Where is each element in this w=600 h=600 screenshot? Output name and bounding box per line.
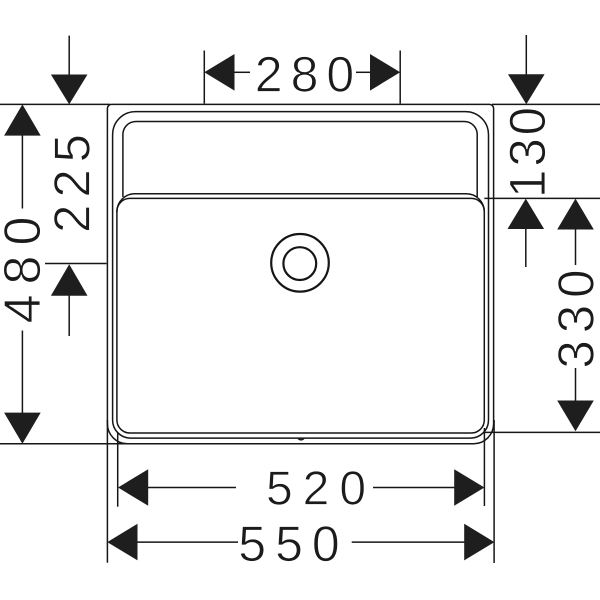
dim 550: left extension line — [106, 420, 108, 563]
svg-text:225: 225 — [43, 127, 100, 233]
dim 330: bottom arrowhead (points down) — [557, 401, 594, 432]
svg-text:550: 550 — [238, 516, 348, 572]
dim 130: top arrow stem — [525, 35, 527, 75]
drain centre extension line (left, to 225 dim) — [45, 263, 107, 265]
dim 280: right extension line — [399, 51, 401, 104]
dim 330: top arrowhead (points up) — [557, 199, 594, 230]
dim 550: right line segment — [352, 541, 465, 543]
dim 550: right arrowhead — [464, 524, 494, 561]
basin outer outline — [107, 104, 493, 443]
dim 520: right line segment — [373, 487, 455, 489]
svg-text:130: 130 — [499, 104, 556, 198]
drain inner circle — [283, 247, 316, 280]
dim 550: left line segment — [137, 541, 238, 543]
dim 480: bottom arrow stem — [21, 331, 23, 414]
dim 130: top arrowhead (points down) — [508, 74, 545, 104]
dim 280: right arrowhead — [370, 54, 400, 91]
svg-text:280: 280 — [255, 47, 362, 103]
svg-text:520: 520 — [266, 463, 376, 516]
dim 225: top arrowhead (points down) — [51, 75, 88, 105]
dim 520: right extension line — [483, 428, 485, 506]
dim 280: right line segment — [356, 71, 370, 73]
dim 480: top arrowhead (points up) — [4, 104, 41, 135]
upper ledge line (deck front edge, merges into bowl sides) — [117, 194, 484, 212]
dim 550: right extension line — [493, 420, 495, 563]
dim 280: left extension line — [203, 51, 205, 104]
bowl outline (lower ledge is its top edge) — [117, 198, 484, 433]
svg-text:330: 330 — [548, 263, 600, 369]
overflow mark at bowl bottom centre — [298, 438, 305, 440]
dim 520: left line segment — [148, 487, 237, 489]
drain outer circle — [271, 234, 329, 292]
dim 550: left arrowhead — [107, 524, 137, 561]
top edge extension line (right, to 130 dim) — [492, 103, 600, 105]
ledge extension line (right, to 130/330 dims) — [484, 197, 600, 199]
dim 280: left line segment — [234, 71, 250, 73]
dim 130: bottom arrow stem — [525, 229, 527, 268]
dim 130: bottom arrowhead (points up) — [508, 199, 545, 229]
dim 225: top arrow stem — [68, 36, 70, 75]
bowl bottom extension line (right, to 330 dim) — [485, 431, 600, 433]
top edge extension line (left, to 480/225 dims) — [0, 103, 110, 105]
dim 520: left extension line — [117, 432, 119, 507]
deck recess outline (upper ledge is its bottom edge) — [123, 122, 477, 198]
basin rim inner outline — [113, 112, 489, 439]
dim 280: left arrowhead — [204, 54, 234, 91]
dim 480: bottom arrowhead (points down) — [4, 413, 41, 444]
dim 225: bottom arrowhead (points up) — [51, 264, 88, 296]
dim 520: left arrowhead — [118, 469, 148, 506]
dim 480: top arrow stem — [21, 135, 23, 209]
dim 330: bottom arrow stem — [575, 368, 577, 401]
bottom edge extension line (left, to 480 dim) — [0, 443, 130, 445]
dim 225: bottom arrow stem — [68, 296, 70, 337]
dim 330: top arrow stem — [575, 229, 577, 265]
dim 520: right arrowhead — [454, 469, 484, 506]
